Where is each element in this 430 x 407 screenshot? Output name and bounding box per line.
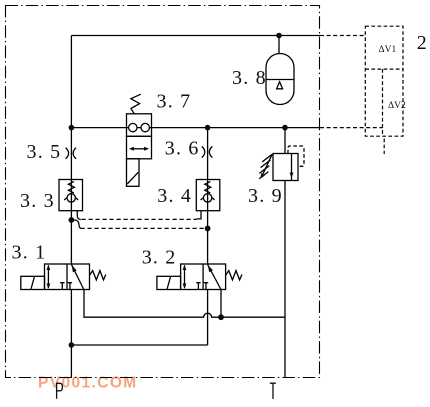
svg-text:3. 9: 3. 9 [248,185,283,207]
svg-text:3. 7: 3. 7 [157,90,192,112]
svg-text:ΔV1: ΔV1 [379,45,397,55]
svg-text:3. 6: 3. 6 [165,137,200,159]
svg-text:3. 3: 3. 3 [20,190,55,212]
svg-text:3. 5: 3. 5 [27,141,62,163]
svg-text:3. 4: 3. 4 [157,185,192,207]
svg-text:3. 8: 3. 8 [232,67,267,89]
svg-text:3. 2: 3. 2 [142,247,177,269]
svg-text:ΔV2: ΔV2 [388,101,406,111]
svg-text:3. 1: 3. 1 [12,241,47,263]
svg-text:2: 2 [417,32,428,54]
